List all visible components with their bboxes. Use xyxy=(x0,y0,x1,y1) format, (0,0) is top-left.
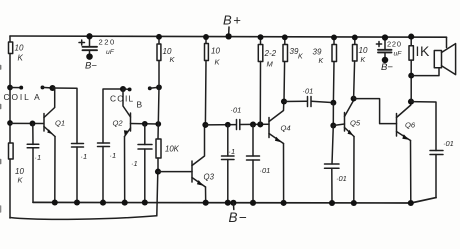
node coil B right junction xyxy=(156,84,162,90)
wire C12 lower lead xyxy=(435,155,437,198)
svg-text:·01: ·01 xyxy=(231,106,242,115)
wire C4 lower lead xyxy=(144,149,146,203)
wire R5 lower lead xyxy=(259,62,261,125)
capacitor C8 .01 xyxy=(247,156,260,160)
svg-text:·01: ·01 xyxy=(443,139,454,148)
transistor Q2 xyxy=(130,113,132,131)
node speaker return xyxy=(408,73,414,79)
svg-text:Q5: Q5 xyxy=(350,119,361,128)
svg-text:Q3: Q3 xyxy=(204,173,215,182)
wire C7 upper lead xyxy=(227,125,229,156)
svg-text:·01: ·01 xyxy=(336,174,347,183)
svg-text:COIL: COIL xyxy=(110,94,134,104)
node R5 tap xyxy=(257,121,263,127)
wire Q4 to C9 coupling xyxy=(284,100,307,102)
svg-text:K: K xyxy=(361,57,366,64)
wire Q5 base link xyxy=(333,124,344,126)
wire 220uF-R lower lead xyxy=(384,52,386,60)
wire 220uF-R upper lead xyxy=(384,38,386,50)
capacitor C1 .1 xyxy=(27,144,39,148)
scan artifact ticks left edge xyxy=(0,66,2,70)
transistor Q5 xyxy=(344,113,346,132)
wire R6 upper lead xyxy=(284,37,286,44)
wire coil B left stub xyxy=(123,88,129,90)
transistor Q1 xyxy=(43,114,45,132)
wire R7 upper lead xyxy=(333,37,335,44)
wire Q2 base jog xyxy=(131,123,159,126)
svg-text:10: 10 xyxy=(211,47,220,56)
node 220uF-R B- terminal xyxy=(382,57,389,64)
plus sign C11 xyxy=(376,42,381,47)
svg-text:K: K xyxy=(215,58,221,67)
node bus Q1e xyxy=(52,199,58,205)
transistor Q6 xyxy=(396,114,398,137)
capacitor C10 .01 xyxy=(325,164,340,168)
capacitor C2 .1 xyxy=(72,144,84,148)
capacitor C3 .1 xyxy=(98,143,110,147)
wire C6 to Q4 base xyxy=(240,123,269,125)
wire R5 upper lead xyxy=(260,37,262,44)
speaker SP1 xyxy=(434,51,441,68)
node coil A left on rail xyxy=(7,85,13,91)
svg-text:Q2: Q2 xyxy=(113,119,124,128)
svg-text:B: B xyxy=(137,100,143,110)
wire feedback bottom run xyxy=(10,216,157,220)
node bus C4 xyxy=(142,199,148,205)
capacitor C12 .01 xyxy=(430,151,443,155)
svg-text:220: 220 xyxy=(99,38,116,47)
node Q3 collector xyxy=(202,122,208,128)
resistor R2 10K lower-left xyxy=(9,143,14,159)
svg-text:M: M xyxy=(267,60,274,69)
node Q5 base xyxy=(330,123,336,129)
svg-text:COIL A: COIL A xyxy=(4,92,42,102)
capacitor C7 .1 xyxy=(222,156,235,160)
svg-text:uF: uF xyxy=(106,49,115,56)
wire left rail upper xyxy=(9,36,11,42)
capacitor C4 .1 xyxy=(138,145,152,150)
svg-text:Q1: Q1 xyxy=(55,119,65,128)
svg-text:·1: ·1 xyxy=(229,147,236,156)
svg-text:220: 220 xyxy=(387,40,402,49)
node Q6 collector xyxy=(408,99,414,105)
resistor R5 2.2M xyxy=(258,45,263,62)
resistor R7 39K xyxy=(332,45,337,62)
wire C3 link to coil B node xyxy=(103,89,123,143)
svg-text:10K: 10K xyxy=(165,145,180,154)
wire 220uF-L upper lead xyxy=(89,36,91,47)
resistor R8 10K xyxy=(353,45,358,62)
capacitor C5 220uF left xyxy=(83,47,98,50)
wire R4 lower lead xyxy=(204,61,207,126)
node bus Q5e xyxy=(351,200,357,206)
wire 10K R3 upper lead xyxy=(158,37,160,44)
node C7 tap xyxy=(225,122,231,128)
wire divider vertical to R10 xyxy=(157,124,159,139)
capacitor C11 220uF right xyxy=(378,50,392,53)
wire C8 lower lead xyxy=(252,160,254,203)
wire Q6 emitter to bus xyxy=(410,141,412,204)
wire C1 upper lead xyxy=(32,124,34,145)
svg-text:2-2: 2-2 xyxy=(264,49,277,58)
node bus C10 xyxy=(329,200,335,206)
wire Q5 emitter to bus xyxy=(353,137,355,204)
node bus C7 xyxy=(225,200,231,206)
wire Q6 collector to C12 xyxy=(411,102,436,151)
wire R7 lower lead xyxy=(332,62,335,103)
wire C8 upper lead xyxy=(252,125,254,157)
wire divider vertical upper xyxy=(157,61,160,125)
wire Q2 emitter to bus xyxy=(124,137,126,203)
svg-text:·01: ·01 xyxy=(303,87,314,96)
node R7 top xyxy=(331,34,337,40)
transistor Q3 xyxy=(191,161,193,182)
node bus B- tick xyxy=(230,200,236,206)
svg-text:39: 39 xyxy=(313,48,322,57)
node Q4 collector xyxy=(281,98,287,104)
node R5 top xyxy=(258,34,264,40)
svg-text:B −: B − xyxy=(229,210,247,225)
wire Q3 base xyxy=(158,171,192,173)
svg-text:·1: ·1 xyxy=(131,159,138,168)
wire 1K R9 upper lead xyxy=(410,37,412,46)
wire Q5 base vertical xyxy=(332,103,334,126)
wire speaker return xyxy=(411,68,439,76)
svg-text:B−: B− xyxy=(85,60,97,71)
wire 10K R8 upper lead xyxy=(354,37,356,44)
wire C1 lower lead xyxy=(32,149,34,203)
transistor Q4 xyxy=(268,118,270,138)
node Q1 base rail junction xyxy=(7,120,13,126)
node R6 top xyxy=(282,34,288,40)
svg-text:·1: ·1 xyxy=(81,152,88,161)
wire Q1 base xyxy=(10,122,44,124)
svg-text:B−: B− xyxy=(381,62,393,73)
resistor R1 10K top-left xyxy=(9,42,13,54)
resistor R10 10K mid xyxy=(156,139,161,158)
wire top-right corner to speaker xyxy=(446,37,448,47)
wire B- tick bottom xyxy=(232,203,234,210)
wire C4 upper lead xyxy=(144,124,146,145)
wire B+ tick xyxy=(228,27,230,36)
node Q1 collector junction xyxy=(49,85,55,91)
wire C10 lower lead xyxy=(331,168,333,203)
node Q2 collector junction xyxy=(120,86,126,92)
node bus Q6e xyxy=(408,200,414,206)
svg-text:K: K xyxy=(319,58,324,65)
wire R10 lower lead xyxy=(157,158,159,172)
wire C10 upper lead xyxy=(332,126,333,165)
wire left rail lower xyxy=(9,159,11,218)
resistor R9 1K xyxy=(409,46,413,60)
node bus Q4e xyxy=(281,200,287,206)
wire R9 lower lead xyxy=(410,60,412,102)
node 220uF-L top xyxy=(86,33,92,39)
svg-text:K: K xyxy=(298,54,303,61)
node coil B terminal 2 xyxy=(148,86,152,90)
svg-text:·1: ·1 xyxy=(110,151,117,160)
svg-text:10: 10 xyxy=(15,44,24,53)
node C4 tap xyxy=(142,121,148,127)
wire Q5-Q6 direct coupling Z xyxy=(354,99,397,124)
wire R8 lower lead xyxy=(354,61,355,99)
svg-text:·1: ·1 xyxy=(35,153,42,162)
wire left rail mid xyxy=(9,54,11,144)
wire coil A left stub xyxy=(10,87,21,89)
node Q3 base xyxy=(155,169,161,175)
node coil A terminal 2 xyxy=(41,85,45,89)
svg-text:uF: uF xyxy=(394,51,403,58)
resistor R4 10K xyxy=(205,44,209,61)
svg-text:Q4: Q4 xyxy=(281,124,291,133)
node C8 tap xyxy=(250,121,256,127)
wire C7 lower lead xyxy=(227,160,229,203)
svg-text:K: K xyxy=(18,176,24,185)
wire 10K R4 upper lead xyxy=(205,37,207,44)
node coil B terminal 1 xyxy=(128,87,132,91)
node 220uF-L B- terminal xyxy=(86,53,93,60)
wire Q4 emitter to bus xyxy=(283,144,285,203)
svg-text:Q6: Q6 xyxy=(405,121,416,130)
svg-text:K: K xyxy=(18,54,24,63)
node C1 tap xyxy=(30,121,36,127)
svg-text:IK: IK xyxy=(416,43,430,59)
wire C3 lower lead xyxy=(102,147,104,203)
wire coil A right stub xyxy=(43,86,53,89)
wire Q3 to C6 coupling xyxy=(205,124,236,126)
wire Q3 emitter to bus xyxy=(205,187,207,203)
resistor R3 10K xyxy=(157,44,161,61)
wire ground bus B- xyxy=(33,198,436,203)
svg-text:·01: ·01 xyxy=(260,166,271,175)
wire C2 lower lead xyxy=(76,147,78,203)
svg-text:10: 10 xyxy=(359,46,368,55)
capacitor C6 .01 series xyxy=(237,120,240,130)
node jog to divider xyxy=(155,121,161,127)
node bus C3 xyxy=(100,200,106,206)
node Q5 coupling junction xyxy=(330,100,336,106)
node 220uF-R top xyxy=(382,34,388,40)
wire Q1 emitter to bus xyxy=(54,137,56,203)
node R4 top xyxy=(203,34,209,40)
wire C9 to Q5 base node xyxy=(311,101,333,102)
node Q5 collector xyxy=(351,96,357,102)
node coil A terminal 1 xyxy=(19,86,23,90)
wire 220uF-L lower lead xyxy=(89,50,91,56)
node R9 top xyxy=(408,34,414,40)
node bus C8 xyxy=(250,200,256,206)
node bus Q3e xyxy=(203,200,209,206)
node bus Q2e xyxy=(122,200,128,206)
plus sign C5 xyxy=(79,40,85,45)
wire R6 lower lead xyxy=(283,62,286,102)
wire top B+ rail xyxy=(10,36,447,37)
node R8 top xyxy=(352,34,358,40)
capacitor C9 .01 series xyxy=(308,97,312,107)
resistor R6 39K xyxy=(283,45,288,62)
node bus C2 xyxy=(74,199,80,205)
node B+ xyxy=(225,33,231,39)
wire Q1 collector node to C2 xyxy=(53,88,78,144)
wire coil B right stub xyxy=(150,87,159,88)
node R3 top xyxy=(156,34,162,40)
wire feedback riser to Q3 base node xyxy=(157,172,158,216)
svg-text:B+: B+ xyxy=(223,13,242,28)
svg-text:K: K xyxy=(170,55,176,64)
